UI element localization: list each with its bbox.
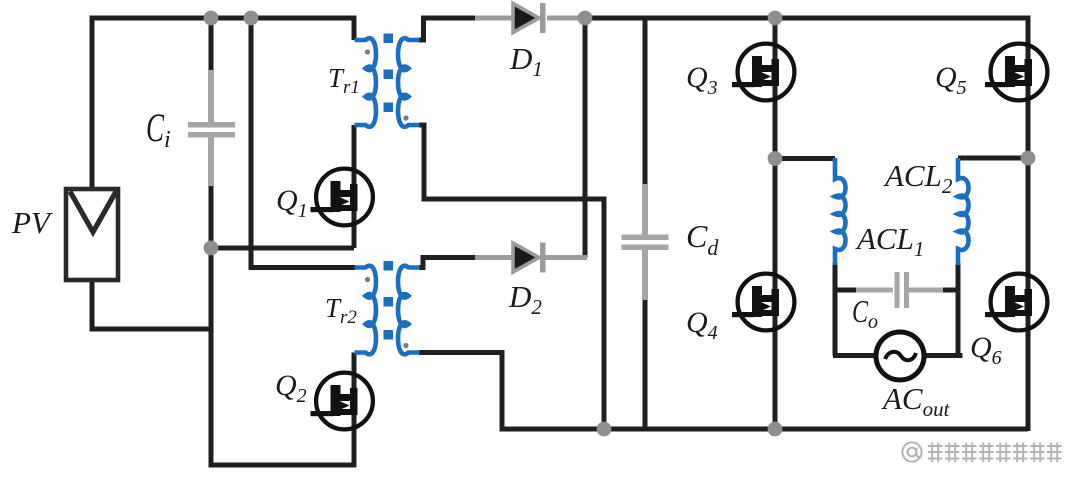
inductor ACL2 [958, 158, 969, 265]
transformer Tr2 [355, 261, 420, 354]
wire: C_o left black stub [835, 288, 858, 293]
node: bottom rail / Tr1 secondary return [597, 422, 612, 437]
wire: C_i column black bottom through junctions down to lower-left rail and Q2 source [211, 182, 356, 465]
svg-text:Q5: Q5 [935, 61, 967, 99]
wire: Tr1 secondary top to D1 anode [419, 18, 477, 40]
wire: below ACL2 down to AC right corner [956, 263, 961, 356]
node: bridge left midpoint [768, 151, 783, 166]
diode D1 [513, 3, 546, 33]
transformer Tr1 [355, 34, 420, 127]
wire: Tr2 primary bottom to Q2 drain [352, 353, 357, 468]
capacitor Cd [622, 184, 669, 300]
watermark [902, 442, 1061, 462]
AC source ACout [876, 332, 924, 380]
svg-text:ACL2: ACL2 [883, 158, 953, 198]
wire: Q3/Q4 column from top rail to bottom rail [773, 16, 778, 429]
svg-text:ACout: ACout [881, 381, 951, 421]
wire: C_d column black top [643, 16, 648, 188]
capacitor Co [895, 272, 910, 308]
mosfet Q1 [311, 169, 373, 226]
capacitor C_i [188, 70, 235, 186]
wire: C_d column black bottom [643, 296, 648, 429]
wire: D1/D2 cathode tie vertical [583, 16, 588, 258]
node: bridge right midpoint [1021, 151, 1036, 166]
wire: Q5/Q6 column from top-right corner to bottom-right corner [1026, 16, 1031, 431]
node: Q1 source / C_i column [204, 241, 219, 256]
wire: C_o right black stub [943, 288, 958, 293]
wire: Tr2 secondary bottom to bottom rail start [419, 353, 502, 432]
wire: D1 cathode gray lead to junction [547, 16, 585, 21]
svg-text:Co: Co [852, 293, 878, 333]
svg-text:Ci: Ci [146, 105, 171, 153]
node: top rail / Tr2 feed [244, 11, 259, 26]
wire: bottom rail [500, 427, 1029, 432]
svg-text:Q4: Q4 [686, 306, 718, 344]
svg-text:Q1: Q1 [276, 184, 308, 222]
node: D1 cathode junction [578, 11, 593, 26]
diode D2 [513, 243, 546, 273]
wire: Tr1 secondary bottom down and right to bottom rail [419, 125, 604, 429]
svg-text:Q2: Q2 [275, 369, 307, 407]
node: top rail / C_i [204, 11, 219, 26]
wire: D1 anode gray lead [475, 16, 513, 21]
wire: C_o left gray lead [856, 288, 893, 293]
node: DC+ rail / Q3 [768, 11, 783, 26]
svg-text:Q6: Q6 [970, 331, 1002, 369]
node: bottom rail / Q4 [768, 422, 783, 437]
wire: D2 anode gray lead [475, 255, 513, 260]
svg-text:Cd: Cd [686, 218, 719, 260]
wire: left bridge midpoint to ACL1 [775, 156, 835, 161]
wire: C_o right gray lead [908, 288, 945, 293]
mosfet Q2 [311, 373, 373, 430]
mosfet Q6 [985, 274, 1047, 331]
svg-text:PV: PV [11, 205, 53, 240]
PV panel PV [66, 189, 118, 280]
wire: D2 cathode gray lead to tie vertical [545, 255, 587, 260]
svg-text:Q3: Q3 [686, 61, 718, 99]
wire: C_i column black top [209, 16, 214, 74]
svg-text:Tr2: Tr2 [325, 293, 357, 328]
wire: Tr2 secondary top up to D2 anode [419, 258, 477, 268]
wire: right bridge midpoint to ACL2 [958, 156, 1028, 161]
wire: Tr1 primary bottom to Q1 drain [352, 125, 357, 248]
mosfet Q3 [732, 44, 794, 101]
wire: below ACL1 down to AC corner [833, 263, 838, 356]
mosfet Q5 [985, 44, 1047, 101]
mosfet Q4 [732, 274, 794, 331]
inductor ACL1 [835, 158, 846, 265]
wire: second feed from top rail down to Tr2 primary top [251, 18, 356, 268]
svg-text:D1: D1 [509, 41, 543, 81]
wire: DC+ rail from D junction to top-right corner then down to Q5 drain [583, 18, 1028, 44]
svg-text:Tr1: Tr1 [328, 63, 360, 98]
svg-text:D2: D2 [508, 279, 542, 319]
wire: PV- down to lower-left rail junction [92, 281, 211, 329]
svg-text:ACL1: ACL1 [855, 221, 924, 261]
wire: AC source left lead [833, 353, 876, 358]
wire: Q1 source down and left to C_i column [211, 246, 354, 251]
wire: AC source right lead [924, 353, 960, 356]
wire: PV+ up left side and top rail to Tr1 primary top [92, 18, 354, 188]
